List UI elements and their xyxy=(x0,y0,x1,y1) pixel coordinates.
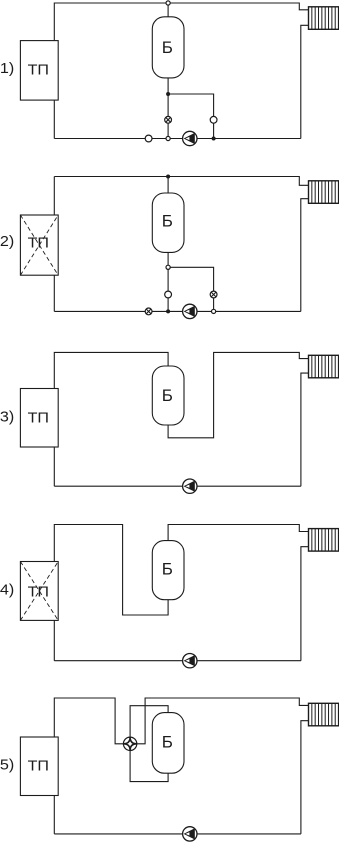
svg-text:2): 2) xyxy=(0,233,14,250)
svg-text:Б: Б xyxy=(162,386,173,405)
svg-text:ТП: ТП xyxy=(28,411,49,427)
svg-text:3): 3) xyxy=(0,409,14,426)
svg-text:ТП: ТП xyxy=(28,236,49,252)
svg-text:5): 5) xyxy=(0,757,14,774)
svg-text:1): 1) xyxy=(0,60,14,77)
svg-text:4): 4) xyxy=(0,582,14,599)
svg-text:ТП: ТП xyxy=(28,584,49,600)
svg-text:ТП: ТП xyxy=(28,758,49,774)
svg-text:Б: Б xyxy=(162,733,173,752)
svg-text:Б: Б xyxy=(162,559,173,578)
svg-text:Б: Б xyxy=(162,38,173,57)
svg-text:ТП: ТП xyxy=(28,63,49,79)
svg-text:Б: Б xyxy=(162,212,173,231)
